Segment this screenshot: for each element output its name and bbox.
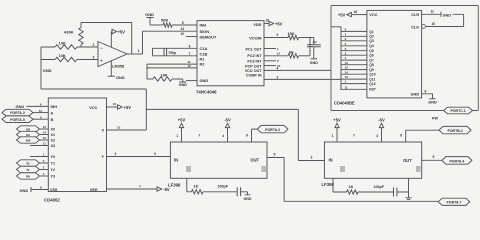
ground: [179, 79, 188, 87]
svg-text:100pF: 100pF: [374, 185, 385, 189]
svg-text:PC1 OUT: PC1 OUT: [246, 47, 263, 51]
resistor R9 1K: [347, 184, 394, 194]
svg-text:Q8: Q8: [369, 63, 374, 67]
svg-text:7: 7: [139, 184, 141, 188]
pin label Q11: [369, 78, 375, 82]
svg-text:A: A: [51, 111, 54, 115]
pin label RST: [369, 88, 376, 92]
svg-text:11: 11: [431, 10, 435, 14]
pin 15: [43, 136, 47, 140]
pin 4: [222, 134, 224, 138]
pin mark: [416, 167, 421, 171]
svg-text:430K: 430K: [64, 30, 74, 35]
resistor R3 430K: [64, 28, 83, 45]
svg-text:4: 4: [222, 134, 224, 138]
svg-text:74HC4046: 74HC4046: [196, 90, 217, 95]
power +5V: [118, 105, 132, 110]
pin 11: [188, 60, 192, 64]
svg-text:10K: 10K: [59, 53, 66, 58]
pin 12: [43, 125, 47, 129]
svg-text:X1: X1: [51, 133, 56, 137]
svg-text:VCOIN: VCOIN: [249, 36, 262, 41]
svg-text:PORTA.5: PORTA.5: [10, 118, 25, 122]
pin 3: [311, 156, 313, 160]
ground: [441, 12, 451, 18]
wire: [453, 14, 464, 26]
svg-text:1: 1: [176, 134, 178, 138]
svg-text:16: 16: [266, 19, 270, 23]
wire: [31, 189, 48, 191]
svg-text:GND: GND: [244, 197, 252, 201]
pin mark: [186, 167, 191, 171]
svg-text:10: 10: [39, 109, 43, 113]
pin 5: [433, 155, 435, 159]
svg-text:1K: 1K: [194, 184, 199, 189]
pin 3: [115, 152, 117, 156]
svg-text:3: 3: [93, 55, 95, 59]
svg-text:PORTC.1: PORTC.1: [451, 109, 466, 113]
svg-text:1: 1: [138, 49, 140, 53]
pin label VEE: [90, 188, 98, 192]
svg-text:18K: 18K: [161, 73, 168, 78]
node PORTA.7: [438, 198, 470, 205]
wire: [340, 27, 342, 90]
pin 9: [345, 28, 347, 32]
pin 2: [277, 59, 279, 63]
svg-text:12: 12: [43, 125, 47, 129]
svg-text:3: 3: [115, 152, 117, 156]
resistor R7 6K: [264, 49, 310, 58]
power -5V: [224, 117, 231, 142]
svg-text:16: 16: [354, 10, 358, 14]
pin label Q5: [369, 49, 374, 53]
pin 13: [345, 61, 349, 65]
ground: [397, 178, 412, 199]
pin label Y1: [51, 162, 56, 166]
ground: [20, 187, 32, 193]
pin label R2: [200, 61, 206, 66]
svg-text:5: 5: [433, 155, 435, 159]
svg-text:CLK: CLK: [411, 24, 419, 29]
svg-text:PC2 INT: PC2 INT: [247, 54, 262, 58]
svg-text:PORTA.3: PORTA.3: [10, 111, 25, 115]
pin 10: [39, 109, 43, 113]
svg-text:7: 7: [189, 52, 191, 56]
pin 1: [277, 47, 279, 51]
pin 4: [345, 56, 347, 60]
capacitor C1 750pF: [164, 48, 176, 56]
pin label Q2: [369, 35, 374, 39]
svg-text:VDD: VDD: [253, 22, 261, 27]
wire: [422, 94, 433, 99]
power +5V: [112, 29, 125, 34]
wire: [341, 31, 367, 89]
pin 13: [117, 125, 121, 129]
resistor R2 10K: [55, 53, 77, 62]
svg-text:3: 3: [311, 156, 313, 160]
pin 15: [345, 75, 349, 79]
pin 5: [274, 153, 276, 157]
pin 2: [43, 166, 45, 170]
pin label IN: [174, 158, 178, 163]
svg-text:GND: GND: [20, 188, 29, 193]
svg-text:Q3: Q3: [369, 39, 374, 43]
capacitor C3 100pF: [218, 185, 241, 197]
svg-text:5: 5: [274, 153, 276, 157]
svg-text:X2: X2: [51, 139, 56, 143]
node PORTA.5: [2, 116, 48, 123]
svg-text:1K: 1K: [349, 184, 354, 189]
ground: [241, 192, 252, 201]
wire: [406, 130, 439, 142]
pin 7: [353, 133, 355, 137]
wire: [153, 48, 198, 56]
pin label Q4: [369, 44, 374, 48]
svg-text:PORTA.7: PORTA.7: [447, 201, 462, 205]
pin label VCC: [369, 12, 377, 17]
node PORTB.2: [439, 126, 471, 133]
svg-text:6: 6: [189, 44, 191, 48]
IC U2 74HC4046: [196, 21, 264, 95]
pin 8: [400, 133, 402, 137]
pin label Q3: [369, 39, 374, 43]
pin 2: [93, 43, 95, 47]
svg-text:14: 14: [43, 131, 47, 135]
svg-text:VCO OUT: VCO OUT: [245, 69, 263, 73]
svg-text:SIGN: SIGN: [200, 29, 210, 34]
svg-text:+5V: +5V: [275, 22, 283, 27]
svg-text:PCP OUT: PCP OUT: [245, 64, 262, 68]
svg-text:VCC: VCC: [89, 105, 97, 110]
wire: [264, 48, 276, 50]
svg-text:4: 4: [376, 134, 378, 138]
power -5V: [378, 117, 385, 142]
svg-text:8: 8: [400, 133, 402, 137]
svg-text:9: 9: [277, 33, 279, 37]
pin label Q12: [369, 82, 375, 86]
wire: [426, 26, 464, 28]
svg-text:DEMOUT: DEMOUT: [200, 35, 217, 40]
svg-text:PORTA.4: PORTA.4: [449, 160, 464, 164]
pin 5: [345, 42, 347, 46]
pin mark: [262, 167, 267, 171]
pin label Q6: [369, 54, 374, 58]
pin 3: [93, 55, 95, 59]
svg-text:5: 5: [182, 21, 184, 25]
svg-text:13: 13: [117, 125, 121, 129]
pin label VCOIN: [249, 36, 262, 41]
svg-text:iv: iv: [27, 168, 30, 172]
wire: [264, 69, 331, 71]
svg-text:Q4: Q4: [369, 44, 374, 48]
svg-text:−: −: [100, 45, 103, 50]
op-amp U1: [98, 42, 127, 69]
pin 3: [345, 47, 347, 51]
pin label R1: [200, 57, 206, 62]
svg-text:B: B: [51, 118, 54, 122]
pin label Y2: [51, 168, 56, 172]
pin label Y: [101, 155, 104, 159]
svg-text:OUT: OUT: [403, 158, 412, 163]
svg-text:iu: iu: [26, 162, 29, 166]
svg-text:Q10: Q10: [369, 73, 375, 77]
frame: [331, 6, 478, 111]
svg-text:INH: INH: [200, 23, 207, 28]
power +5V: [269, 21, 283, 26]
pin label X: [101, 129, 104, 133]
wire: [309, 38, 311, 56]
svg-text:C1A: C1A: [200, 46, 208, 51]
svg-text:GND: GND: [16, 104, 25, 109]
svg-text:7: 7: [199, 133, 201, 137]
resistor R6 15K: [264, 31, 310, 40]
node iw: [17, 173, 49, 179]
wire: [107, 156, 171, 158]
svg-text:PC3 INT: PC3 INT: [247, 59, 262, 63]
pin 12: [188, 64, 192, 68]
pin 14: [181, 27, 185, 31]
pin 7: [199, 133, 201, 137]
svg-text:14: 14: [181, 27, 185, 31]
pin 8: [425, 90, 427, 94]
pin 15: [277, 64, 281, 68]
pin label DEMOUT: [200, 35, 217, 40]
pin label INH: [200, 23, 207, 28]
pin label A: [51, 111, 54, 115]
pin 1: [138, 49, 140, 53]
ground: [145, 12, 154, 25]
pin 13: [277, 52, 281, 56]
wire: [110, 61, 112, 76]
svg-text:INH: INH: [51, 105, 58, 109]
pin 4: [277, 66, 279, 70]
node PORTC.1: [444, 107, 473, 114]
pin label X0: [51, 128, 56, 132]
wire: [30, 145, 48, 147]
svg-text:Y2: Y2: [51, 168, 56, 172]
wire: [107, 188, 158, 190]
svg-text:OUT: OUT: [250, 158, 259, 163]
svg-text:GND: GND: [43, 68, 52, 73]
svg-text:Y3: Y3: [51, 175, 56, 179]
pin 16: [266, 19, 270, 23]
wire: [267, 157, 284, 159]
pin 12: [345, 66, 349, 70]
node PORTA.2: [257, 125, 288, 132]
wire: [110, 32, 112, 48]
node iu: [17, 160, 49, 166]
pin 7: [345, 32, 347, 36]
pin 11: [345, 85, 348, 89]
pin 7: [139, 184, 141, 188]
pin label VCOOUT: [245, 69, 263, 73]
svg-text:16: 16: [113, 102, 117, 106]
svg-text:14: 14: [345, 70, 349, 74]
wire: [331, 26, 341, 28]
IC U5 LF398: [168, 142, 267, 187]
wire: [264, 65, 276, 67]
svg-text:Y0: Y0: [51, 155, 56, 159]
wire: [107, 106, 118, 108]
pin label CLR: [411, 12, 419, 17]
ground: [428, 99, 437, 105]
node sw: [17, 137, 49, 143]
wire: [146, 109, 324, 160]
wire: [252, 129, 258, 142]
svg-text:R2: R2: [200, 61, 206, 66]
svg-text:X0: X0: [51, 128, 56, 132]
pin 9: [40, 115, 42, 119]
pin 1: [345, 80, 347, 84]
power +5V: [338, 12, 352, 17]
svg-text:Q2: Q2: [369, 35, 374, 39]
pin label INH: [51, 105, 58, 109]
wire: [147, 64, 197, 79]
pin 5: [43, 159, 45, 163]
svg-text:Q11: Q11: [369, 78, 375, 82]
pin label COMPIN: [246, 74, 262, 78]
svg-text:GND: GND: [428, 101, 437, 105]
svg-text:PORTB.2: PORTB.2: [448, 129, 463, 133]
pin 3: [154, 152, 156, 156]
wire: [41, 46, 98, 48]
svg-text:Q6: Q6: [369, 54, 374, 58]
capacitor C2: [307, 38, 321, 59]
svg-text:COMP IN: COMP IN: [246, 74, 262, 78]
power +5V: [178, 117, 186, 142]
svg-text:+5V: +5V: [338, 13, 346, 18]
wire: [41, 59, 98, 61]
svg-text:15: 15: [43, 136, 47, 140]
pin 3: [277, 75, 279, 79]
svg-text:Q7: Q7: [369, 59, 374, 63]
pin 11: [43, 142, 46, 146]
resistor R4 50K: [150, 18, 197, 28]
svg-text:CD4040BE: CD4040BE: [334, 101, 355, 106]
svg-text:1: 1: [332, 134, 334, 138]
svg-text:10: 10: [181, 32, 185, 36]
svg-text:10K: 10K: [59, 40, 66, 45]
svg-text:sw: sw: [26, 139, 31, 143]
node PORTA.4: [442, 157, 472, 165]
svg-text:Q5: Q5: [369, 49, 374, 53]
pin label B: [51, 118, 54, 122]
svg-text:15: 15: [345, 75, 349, 79]
pin label Q7: [369, 59, 374, 63]
svg-text:IN: IN: [174, 158, 178, 163]
pin label SIGN: [200, 29, 210, 34]
pin label X1: [51, 133, 56, 137]
svg-text:12: 12: [188, 64, 192, 68]
wire: [186, 80, 197, 82]
wire: [187, 178, 192, 192]
svg-text:GND: GND: [145, 12, 154, 17]
pin label X3: [51, 144, 56, 148]
svg-text:-5V: -5V: [378, 117, 385, 122]
svg-text:Q9: Q9: [369, 68, 374, 72]
pin 2: [345, 51, 347, 55]
pin 6: [189, 44, 191, 48]
svg-text:8: 8: [425, 90, 427, 94]
power -5V: [157, 187, 170, 192]
svg-text:IN: IN: [329, 158, 333, 163]
pin label GND: [411, 91, 420, 96]
inverter bubble: [422, 25, 426, 29]
svg-text:.1u: .1u: [312, 40, 317, 44]
pin 14: [43, 131, 47, 135]
pin 14: [345, 70, 349, 74]
node sv: [17, 131, 49, 137]
svg-text:+5V: +5V: [333, 117, 341, 122]
pin label PC2INT: [247, 54, 262, 58]
svg-text:GND: GND: [179, 83, 188, 87]
pin label CLK: [411, 24, 419, 29]
wire: [143, 31, 198, 54]
pin mark: [340, 167, 345, 171]
ground: [108, 75, 125, 80]
resistor R1 10K: [55, 40, 77, 49]
svg-text:50K: 50K: [161, 18, 168, 23]
svg-text:+5V: +5V: [178, 117, 186, 122]
pin 8: [246, 133, 248, 137]
svg-text:8: 8: [246, 133, 248, 137]
svg-text:-5V: -5V: [224, 117, 231, 122]
wire: [30, 156, 48, 158]
wire: [422, 13, 441, 15]
svg-text:GND: GND: [116, 75, 125, 80]
svg-text:VSS: VSS: [50, 188, 58, 192]
wire: [352, 14, 367, 16]
svg-text:Y1: Y1: [51, 162, 56, 166]
pin label Y3: [51, 175, 56, 179]
svg-text:2: 2: [93, 43, 95, 47]
node PW: [432, 117, 438, 121]
pin 1: [43, 153, 45, 157]
svg-text:4: 4: [277, 66, 279, 70]
pin label C1A: [200, 46, 208, 51]
pin label Q1: [369, 30, 374, 34]
pin 5: [182, 21, 184, 25]
svg-text:GND: GND: [411, 91, 420, 96]
svg-text:13: 13: [277, 52, 281, 56]
svg-text:15K: 15K: [288, 31, 295, 36]
pin 8: [40, 186, 42, 190]
svg-text:GND: GND: [443, 13, 452, 17]
pin label OUT: [403, 158, 412, 163]
wire: [264, 23, 269, 25]
svg-text:7: 7: [353, 133, 355, 137]
svg-text:iw: iw: [26, 175, 30, 179]
svg-text:+: +: [100, 59, 103, 64]
svg-text:Q12: Q12: [369, 82, 375, 86]
pin 6: [40, 103, 42, 107]
pin 6: [345, 37, 347, 41]
pin 10: [181, 32, 185, 36]
pin label VCC: [89, 105, 97, 110]
svg-text:+5V: +5V: [124, 105, 132, 110]
pin label C1B: [200, 51, 208, 56]
svg-text:+5V: +5V: [118, 30, 126, 35]
pin 1: [332, 134, 334, 138]
pin 7: [189, 52, 191, 56]
pin label PC3INT: [247, 59, 262, 63]
svg-text:LF398: LF398: [168, 182, 181, 187]
svg-text:100pF: 100pF: [218, 185, 229, 189]
node PORTA.3: [2, 109, 48, 116]
power +5V: [333, 117, 341, 142]
svg-text:CD4052: CD4052: [44, 197, 60, 202]
wire: [264, 60, 276, 62]
